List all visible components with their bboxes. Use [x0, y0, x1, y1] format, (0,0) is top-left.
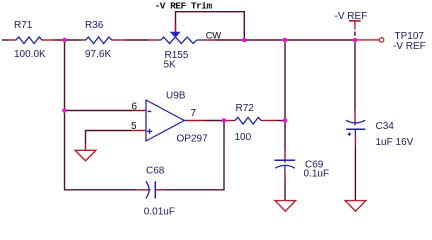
svg-text:0.01uF: 0.01uF [144, 206, 175, 217]
svg-text:C34: C34 [376, 121, 395, 132]
svg-text:0.1uF: 0.1uF [304, 169, 330, 180]
svg-text:100.0K: 100.0K [14, 49, 46, 60]
svg-text:C68: C68 [146, 166, 165, 177]
svg-text:CW: CW [206, 31, 221, 42]
svg-text:-V REF: -V REF [393, 41, 426, 52]
svg-text:-V REF: -V REF [335, 11, 368, 22]
svg-text:U9B: U9B [166, 91, 186, 102]
svg-text:7: 7 [191, 108, 197, 119]
svg-text:5K: 5K [164, 60, 177, 71]
svg-text:R72: R72 [236, 103, 255, 114]
svg-text:R36: R36 [85, 20, 104, 31]
svg-text:-V REF Trim: -V REF Trim [155, 1, 213, 12]
svg-text:1uF 16V: 1uF 16V [376, 137, 414, 148]
svg-text:97.6K: 97.6K [85, 49, 111, 60]
svg-text:6: 6 [132, 101, 138, 112]
svg-text:100: 100 [235, 132, 252, 143]
svg-text:5: 5 [131, 121, 137, 132]
svg-text:R71: R71 [14, 20, 33, 31]
svg-text:OP297: OP297 [177, 134, 209, 145]
